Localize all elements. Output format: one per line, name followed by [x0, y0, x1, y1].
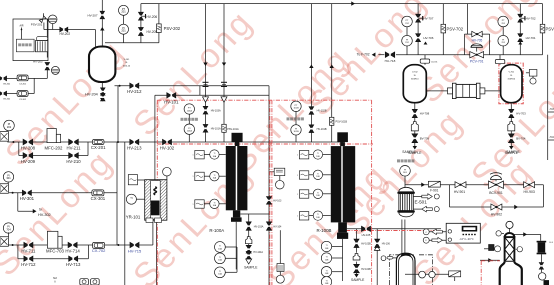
svg-text:-10°C~90°C: -10°C~90°C [459, 237, 474, 241]
svg-text:CX-702: CX-702 [92, 248, 106, 253]
svg-text:HV-104B: HV-104B [361, 268, 371, 271]
svg-text:HV-714: HV-714 [65, 248, 80, 253]
svg-text:BV-704: BV-704 [516, 136, 526, 140]
svg-text:HV-212: HV-212 [127, 89, 142, 94]
svg-text:1: 1 [297, 155, 298, 157]
svg-text:V-701: V-701 [508, 72, 514, 74]
svg-text:to: to [39, 208, 42, 212]
svg-text:HV-202: HV-202 [59, 32, 70, 36]
svg-text:101B: 101B [293, 108, 299, 110]
svg-text:202: 202 [7, 125, 12, 129]
svg-text:PSV-702: PSV-702 [447, 26, 464, 31]
svg-text:HV-101A: HV-101A [211, 128, 221, 131]
svg-text:HV-702: HV-702 [526, 16, 536, 20]
svg-text:201: 201 [121, 10, 126, 14]
svg-text:301: 301 [6, 176, 11, 180]
svg-text:HV-207: HV-207 [87, 14, 97, 18]
svg-text:201: 201 [121, 29, 126, 33]
svg-text:HV-205: HV-205 [147, 30, 158, 34]
svg-text:HV-708: HV-708 [420, 112, 430, 116]
svg-text:PSV-201: PSV-201 [31, 22, 43, 26]
svg-text:HV-203: HV-203 [33, 60, 43, 64]
svg-text:HV-105: HV-105 [362, 233, 371, 237]
svg-text:HV-301: HV-301 [20, 196, 35, 201]
svg-text:HV-715: HV-715 [128, 248, 142, 253]
svg-text:HV-103B: HV-103B [361, 243, 371, 246]
svg-text:TI: TI [130, 196, 133, 200]
svg-text:101A: 101A [187, 109, 193, 112]
svg-text:PSV-101B: PSV-101B [336, 121, 348, 124]
svg-text:BV-709: BV-709 [420, 136, 430, 140]
svg-text:HV-213: HV-213 [127, 145, 142, 150]
svg-text:101A: 101A [187, 130, 193, 133]
svg-text:SAMPLE: SAMPLE [244, 265, 258, 269]
svg-text:V-702: V-702 [412, 72, 418, 74]
svg-text:HV-210: HV-210 [66, 159, 81, 164]
svg-text:SAMPLE: SAMPLE [402, 150, 416, 154]
svg-text:AIR: AIR [20, 25, 24, 28]
svg-text:HV-903: HV-903 [523, 190, 534, 194]
svg-text:PSV-202: PSV-202 [164, 26, 181, 31]
svg-text:R-100A: R-100A [209, 228, 224, 233]
svg-text:SAMPLE: SAMPLE [351, 278, 365, 282]
svg-text:HV-103A: HV-103A [254, 225, 264, 228]
svg-text:HU-718: HU-718 [385, 59, 396, 63]
svg-text:HV-707: HV-707 [423, 16, 433, 20]
svg-text:YR-101: YR-101 [126, 215, 141, 220]
svg-text:1: 1 [297, 175, 298, 177]
svg-text:V-101: V-101 [124, 59, 130, 61]
svg-text:1: 1 [193, 176, 194, 178]
svg-text:Tu F-702: Tu F-702 [357, 53, 370, 57]
svg-text:HV-102: HV-102 [160, 145, 175, 150]
svg-text:HV-104: HV-104 [273, 225, 282, 228]
svg-text:1: 1 [193, 155, 194, 157]
svg-text:HV-106: HV-106 [382, 243, 391, 246]
svg-text:316L10: 316L10 [123, 65, 131, 67]
svg-text:HV-712: HV-712 [21, 262, 36, 267]
svg-text:1: 1 [297, 216, 298, 218]
svg-text:F-901: F-901 [430, 188, 439, 192]
svg-text:MFC-202: MFC-202 [45, 145, 64, 150]
svg-text:HV-103: HV-103 [273, 200, 282, 203]
svg-text:PSV: PSV [546, 26, 554, 31]
svg-text:CX-301: CX-301 [91, 196, 106, 201]
svg-text:1: 1 [193, 204, 194, 206]
svg-text:CX-201: CX-201 [91, 145, 106, 150]
svg-text:HV-711: HV-711 [21, 248, 36, 253]
svg-text:E-501: E-501 [415, 200, 428, 205]
svg-text:HV-902: HV-902 [491, 212, 502, 216]
svg-text:HV-211: HV-211 [66, 145, 81, 150]
svg-text:HV-101: HV-101 [164, 99, 179, 104]
svg-text:316R10: 316R10 [507, 78, 515, 80]
svg-text:HV-901: HV-901 [454, 190, 465, 194]
svg-text:1: 1 [297, 194, 298, 196]
svg-text:PSV-101A: PSV-101A [227, 128, 239, 131]
svg-text:BCV-901: BCV-901 [489, 191, 503, 195]
svg-text:HV-713: HV-713 [66, 262, 81, 267]
svg-text:HV-102B: HV-102B [317, 110, 327, 113]
svg-text:PCV-701: PCV-701 [470, 60, 484, 64]
svg-text:HV-206: HV-206 [147, 15, 158, 19]
svg-text:BV-302: BV-302 [3, 83, 11, 85]
svg-text:-703: -703 [549, 108, 554, 111]
svg-text:101B: 101B [293, 131, 299, 133]
svg-text:CX-701: CX-701 [431, 62, 437, 64]
svg-text:HV-701: HV-701 [526, 36, 536, 40]
svg-text:HV-705: HV-705 [472, 39, 483, 43]
svg-text:HV-101B: HV-101B [317, 128, 327, 131]
svg-text:BV-302: BV-302 [3, 99, 11, 101]
svg-text:MFC-703: MFC-703 [46, 248, 65, 253]
svg-text:SAMPLE: SAMPLE [506, 150, 520, 154]
svg-text:R-100B: R-100B [317, 228, 332, 233]
svg-text:HV-103A: HV-103A [211, 109, 221, 112]
svg-text:316R10: 316R10 [411, 78, 419, 80]
svg-text:HV-204: HV-204 [85, 93, 98, 97]
svg-text:HV-104A: HV-104A [253, 251, 263, 254]
svg-text:-704: -704 [549, 136, 554, 139]
svg-text:704: 704 [6, 227, 11, 231]
svg-text:HV-706: HV-706 [423, 36, 433, 40]
svg-text:HV-302: HV-302 [38, 213, 51, 217]
svg-text:HV-209: HV-209 [21, 159, 36, 164]
svg-text:HV-703: HV-703 [516, 112, 526, 116]
svg-text:CX-302: CX-302 [19, 83, 27, 85]
svg-text:CX-302: CX-302 [19, 99, 27, 101]
svg-text:HV-208: HV-208 [21, 145, 36, 150]
